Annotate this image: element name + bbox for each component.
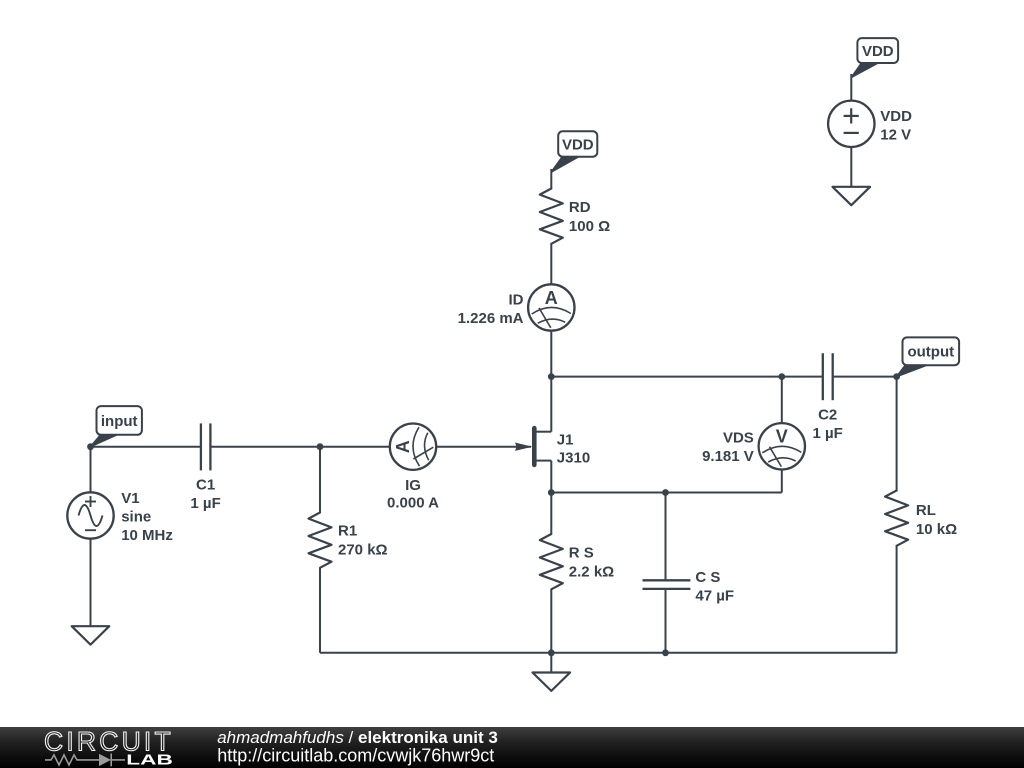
svg-text:input: input <box>101 413 138 430</box>
svg-text:R1: R1 <box>338 523 357 540</box>
svg-text:10 kΩ: 10 kΩ <box>916 521 957 538</box>
svg-text:VDS: VDS <box>723 429 754 446</box>
svg-text:2.2 kΩ: 2.2 kΩ <box>569 563 614 580</box>
svg-text:1 µF: 1 µF <box>813 425 843 442</box>
svg-text:100 Ω: 100 Ω <box>569 218 610 235</box>
svg-text:0.000 A: 0.000 A <box>387 495 439 512</box>
svg-text:J310: J310 <box>557 449 590 466</box>
svg-text:V1: V1 <box>121 490 139 507</box>
svg-text:R S: R S <box>569 545 594 562</box>
svg-text:1 µF: 1 µF <box>190 495 220 512</box>
svg-text:A: A <box>545 288 558 308</box>
svg-text:ahmadmahfudhs / elektronika un: ahmadmahfudhs / elektronika unit 3 <box>217 728 498 747</box>
svg-text:LAB: LAB <box>126 753 173 768</box>
svg-text:RD: RD <box>569 199 591 216</box>
svg-text:output: output <box>907 344 954 361</box>
svg-text:9.181 V: 9.181 V <box>702 448 754 465</box>
svg-text:VDD: VDD <box>562 136 594 153</box>
svg-text:C2: C2 <box>818 407 837 424</box>
svg-text:J1: J1 <box>557 431 574 448</box>
svg-text:http://circuitlab.com/cvwjk76h: http://circuitlab.com/cvwjk76hwr9ct <box>217 745 494 765</box>
svg-text:RL: RL <box>916 502 936 519</box>
svg-text:1.226 mA: 1.226 mA <box>458 310 524 327</box>
svg-text:C1: C1 <box>196 477 215 494</box>
svg-text:V: V <box>776 427 788 447</box>
svg-text:sine: sine <box>121 508 151 525</box>
svg-text:IG: IG <box>405 477 421 494</box>
svg-text:47 µF: 47 µF <box>695 588 734 605</box>
svg-text:C S: C S <box>695 569 720 586</box>
svg-text:VDD: VDD <box>862 43 894 60</box>
svg-text:270 kΩ: 270 kΩ <box>338 541 388 558</box>
svg-text:12 V: 12 V <box>880 127 911 144</box>
svg-text:10 MHz: 10 MHz <box>121 527 173 544</box>
svg-text:A: A <box>393 440 413 453</box>
svg-text:VDD: VDD <box>880 108 912 125</box>
svg-text:ID: ID <box>509 291 524 308</box>
